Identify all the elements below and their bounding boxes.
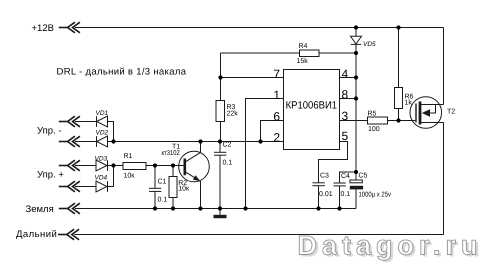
wire VD2 row / pin2 rail [108,141,284,143]
wire R3 to pin2 rail [220,122,222,142]
svg-text:C5: C5 [359,172,368,179]
node Upr- top connector [59,116,80,127]
node gnd T1 emitter [198,206,202,210]
wire Dalny line [75,234,444,236]
svg-text:C2: C2 [223,141,232,148]
diode VD2 [96,136,98,147]
svg-text:2: 2 [273,130,280,144]
svg-text:VD4: VD4 [95,175,108,182]
node C4/C5 [354,170,358,174]
wire ground rail [75,208,356,210]
node VD3/VD4 join [111,163,115,167]
node Upr+ top connector [59,160,80,171]
svg-text:0.1: 0.1 [158,197,168,204]
svg-text:22k: 22k [227,110,239,118]
svg-text:8: 8 [342,87,349,101]
capacitor C5 electrolytic [350,180,362,183]
resistor R3 [216,101,225,122]
svg-text:7: 7 [273,67,280,81]
node gate / R6 [396,118,400,122]
node VD1/VD2 join [111,139,115,143]
svg-text:+12В: +12В [32,23,54,34]
node gnd C4 [337,206,341,210]
svg-text:КР1006ВИ1: КР1006ВИ1 [286,99,338,111]
wire pin 7 [221,77,284,79]
node pin7 / R3 [218,75,222,79]
svg-text:0.1: 0.1 [223,159,233,166]
op-amp U1 IC KR1006VI1 box [284,70,340,150]
transistor T1 [179,151,210,182]
svg-text:Дальний: Дальний [16,229,57,240]
svg-text:DRL - дальний в 1/3 накала: DRL - дальний в 1/3 накала [57,67,187,78]
node gnd C1 [153,206,157,210]
diode VD3 [96,160,107,171]
svg-text:C3: C3 [320,173,329,180]
node GND connector [59,203,80,214]
wire T2 source down to Dalny line [443,123,445,235]
node pin4 [354,75,358,79]
node Upr- bottom connector [59,136,80,147]
svg-text:1000µ x 25v: 1000µ x 25v [359,191,392,198]
svg-text:VD3: VD3 [95,155,108,162]
wire to VD1 [75,121,96,123]
node top rail / VD5 [354,25,358,29]
svg-text:Упр. +: Упр. + [37,170,64,181]
wire pin 6 [261,121,284,142]
svg-text:100: 100 [368,126,380,133]
resistor R4 [300,50,320,57]
svg-text:Упр. -: Упр. - [37,126,61,137]
wire R4 right lead [319,52,356,54]
capacitor C1 [154,166,156,189]
diode VD5 [355,28,357,37]
svg-text:R5: R5 [368,110,377,117]
svg-text:Datagor.ru: Datagor.ru [298,231,478,261]
node gnd R2 [171,206,175,210]
transistor T2 MOSFET [410,97,442,129]
capacitor C3 [313,182,325,184]
svg-text:VD2: VD2 [96,129,109,136]
svg-text:C1: C1 [158,178,167,185]
resistor R5 [368,117,388,124]
wire VD1 to junction [108,122,114,142]
wire to VD2 [75,141,96,143]
wire +12V rail [75,27,444,29]
node R2 top [171,163,175,167]
node C1 top [153,163,157,167]
ground symbol [219,209,221,215]
node pin8 [354,96,358,100]
wire to VD4 [75,186,96,188]
wire VD3 to R1 [108,165,124,167]
wire pin 4 [339,77,356,79]
wire R5 to gate node [388,120,416,122]
wire R4 corner down through pin7 to R3 [220,53,222,101]
svg-text:0.01: 0.01 [319,191,333,198]
svg-text:кт3102: кт3102 [162,150,180,157]
node T1 collector [198,139,202,143]
svg-text:Земля: Земля [26,204,54,215]
capacitor C2 [219,142,221,153]
svg-text:C4: C4 [341,173,350,180]
svg-text:6: 6 [273,110,280,124]
wire R1 to T1 base [146,165,184,167]
svg-text:VD1: VD1 [96,110,109,117]
resistor R2 [172,166,174,177]
node top rail / R6 [396,25,400,29]
wire R4 left lead [221,52,300,54]
node Dalny connector [58,229,79,240]
wire pin 8 [339,98,356,100]
node gnd pin1 [243,206,247,210]
watermark Datagor.ru [298,231,480,263]
resistor R6 [398,28,400,88]
node R4 / VD5 cathode [354,51,358,55]
wire pin 1 [246,99,284,209]
wire pin 5 [319,142,348,183]
svg-text:T2: T2 [447,108,455,115]
node R3/C2 [218,139,222,143]
svg-text:5: 5 [342,129,349,143]
node Upr+ bottom connector [59,181,80,192]
node +12V connector [59,22,80,33]
svg-text:3: 3 [342,109,349,123]
wire pin 3 to R5 [339,120,368,122]
node gnd C3 [316,206,320,210]
wire T1 collector [200,142,202,153]
diode VD1 [96,116,98,127]
svg-text:R4: R4 [299,43,308,50]
wire VD4 up to VD3 row [108,166,114,187]
node pin6/pin2 [258,139,262,143]
svg-text:R1: R1 [124,153,133,160]
resistor R1 [123,163,146,170]
node gnd C2 [218,206,222,210]
wire T1 emitter [200,181,202,208]
wire T2 drain up to +12 rail [443,28,445,105]
svg-text:4: 4 [342,67,349,81]
svg-text:VD5: VD5 [363,41,376,48]
wire to VD3 [75,165,96,167]
svg-text:1: 1 [273,88,280,102]
svg-text:0.1: 0.1 [341,191,351,198]
svg-text:15k: 15k [297,57,309,65]
svg-text:10к: 10к [124,173,136,180]
svg-text:1k: 1k [405,99,413,107]
capacitor C4 [340,172,357,183]
svg-text:10к: 10к [178,186,190,193]
wire VD5 cathode column to C5 [355,44,357,180]
diode VD4 [96,181,107,192]
